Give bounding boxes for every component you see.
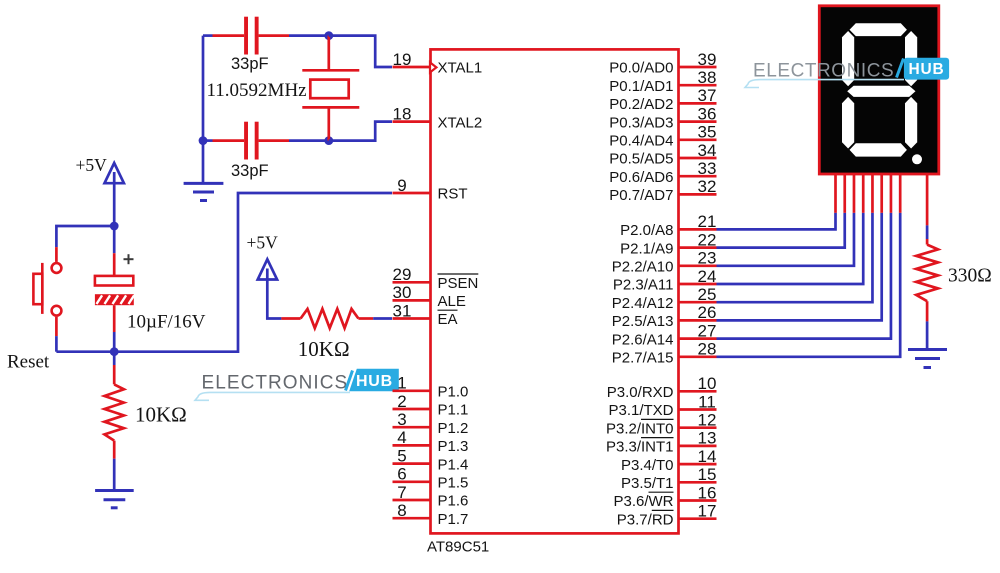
svg-text:AT89C51: AT89C51 [427, 538, 489, 555]
pin 8 P1.7 (left stub + number + label) [393, 501, 469, 528]
svg-text:P0.7/AD7: P0.7/AD7 [609, 187, 673, 204]
ground GND2 (reset circuit) [95, 491, 134, 508]
svg-text:10µF/16V: 10µF/16V [127, 312, 206, 333]
pin 34 P0.5/AD5 (right stub + number + label) [609, 141, 716, 168]
pin 25 P2.4/A12 (right stub + number + label) [612, 285, 717, 312]
pin 38 P0.1/AD1 (right stub + number + label) [609, 68, 716, 95]
node junction bottom (cap C2 / crystal / pin18) [324, 136, 333, 145]
watermark logo ELECTRONICS HUB (top right, over display) [745, 58, 949, 88]
pin 39 P0.0/AD0 (right stub + number + label) [609, 50, 716, 77]
pin 17 P3.7/RD (right stub + number + label) [617, 502, 717, 529]
svg-text:EA: EA [438, 311, 458, 328]
wire: +5V down to reset node [113, 183, 116, 226]
display segment g (middle) [847, 86, 915, 97]
pin 13 P3.3/INT1 (right stub + number + label) [606, 429, 717, 456]
svg-text:P3.3/INT1: P3.3/INT1 [606, 439, 674, 456]
power +5V supply (reset) [76, 155, 124, 183]
svg-text:31: 31 [393, 301, 412, 320]
svg-text:24: 24 [698, 267, 717, 286]
pin 37 P0.2/AD2 (right stub + number + label) [609, 86, 716, 113]
svg-text:P0.3/AD3: P0.3/AD3 [609, 114, 673, 131]
wire: node to push button top [56, 226, 114, 262]
svg-text:9: 9 [397, 176, 406, 195]
pin 4 P1.3 (left stub + number + label) [393, 428, 469, 455]
pin 14 P3.4/T0 (right stub + number + label) [621, 447, 717, 474]
svg-text:13: 13 [698, 429, 717, 448]
svg-text:P2.0/A8: P2.0/A8 [620, 222, 673, 239]
power +5V supply (EA pin) [247, 232, 279, 279]
wire: P2.4 (pin 25) to display segment pin 5 [717, 174, 873, 302]
ground GND1 (crystal circuit) [184, 141, 224, 201]
svg-text:RST: RST [438, 186, 468, 203]
svg-text:P3.1/TXD: P3.1/TXD [608, 402, 673, 419]
svg-text:35: 35 [698, 123, 717, 142]
svg-text:P1.6: P1.6 [438, 493, 469, 510]
wire: P2.3 (pin 24) to display segment pin 4 [717, 174, 864, 284]
svg-text:1: 1 [397, 374, 406, 393]
node junction (cap / resistor / bus) [110, 347, 119, 356]
display segment d (bottom) [850, 143, 907, 156]
svg-text:P1.1: P1.1 [438, 402, 469, 419]
pin 33 P0.6/AD6 (right stub + number + label) [609, 159, 716, 186]
svg-text:P3.7/RD: P3.7/RD [617, 511, 674, 528]
svg-text:34: 34 [698, 141, 717, 160]
wire: display common pin down [926, 174, 929, 239]
wire: push button bottom to reset bus [55, 317, 58, 352]
pin 24 P2.3/A11 (right stub + number + label) [613, 267, 717, 294]
wire: junction to XTAL2 pin 18 [329, 122, 392, 141]
svg-text:P2.3/A11: P2.3/A11 [613, 277, 674, 294]
svg-text:P3.2/INT0: P3.2/INT0 [606, 420, 674, 437]
pin 12 P3.2/INT0 (right stub + number + label) [606, 411, 717, 438]
watermark logo ELECTRONICS HUB (middle left) [195, 369, 399, 401]
op-amp U1 AT89C51 IC body [427, 49, 679, 555]
svg-text:P3.6/WR: P3.6/WR [613, 493, 673, 510]
display segment c (bottom-right) [905, 97, 917, 149]
svg-text:37: 37 [698, 86, 717, 105]
svg-text:10KΩ: 10KΩ [135, 402, 187, 426]
display segment a (top) [850, 23, 907, 36]
svg-text:19: 19 [393, 50, 412, 69]
resistor R1 10K ohm (reset pulldown) [105, 352, 187, 489]
svg-text:5: 5 [397, 446, 406, 465]
svg-text:P1.4: P1.4 [438, 456, 469, 473]
display segment b (top-right) [905, 31, 917, 86]
svg-text:27: 27 [698, 321, 717, 340]
svg-text:P0.4/AD4: P0.4/AD4 [609, 133, 673, 150]
svg-text:15: 15 [698, 465, 717, 484]
pin 29 PSEN (left stub + number + label) [393, 265, 479, 292]
svg-text:25: 25 [698, 285, 717, 304]
pin 15 P3.5/T1 (right stub + number + label) [621, 465, 717, 492]
svg-text:P0.0/AD0: P0.0/AD0 [609, 60, 673, 77]
svg-text:21: 21 [698, 212, 717, 231]
svg-text:7: 7 [397, 483, 406, 502]
svg-text:XTAL2: XTAL2 [438, 114, 483, 131]
svg-text:ELECTRONICS: ELECTRONICS [202, 373, 349, 394]
svg-text:2: 2 [397, 392, 406, 411]
pin 16 P3.6/WR (right stub + number + label) [613, 483, 716, 510]
pin 9 RST (left stub + number + label) [393, 176, 468, 203]
svg-text:6: 6 [397, 465, 406, 484]
svg-text:P1.3: P1.3 [438, 438, 469, 455]
svg-text:+5V: +5V [76, 155, 108, 175]
pin 1 P1.0 (left stub + number + label) [393, 374, 469, 401]
7-segment display DS1 (body) [819, 6, 939, 174]
node junction bottom-left (cap C2 / ground bus) [199, 136, 208, 145]
wire: P2.7 (pin 28) to display segment pin 8 [717, 174, 901, 357]
svg-text:P1.5: P1.5 [438, 475, 469, 492]
resistor R2 10K ohm (EA pull-up, horizontal) [281, 309, 392, 361]
svg-text:P0.2/AD2: P0.2/AD2 [609, 96, 673, 113]
svg-text:23: 23 [698, 249, 717, 268]
svg-text:26: 26 [698, 303, 717, 322]
svg-text:P2.1/A9: P2.1/A9 [620, 240, 673, 257]
svg-text:P1.0: P1.0 [438, 384, 469, 401]
pin 11 P3.1/TXD (right stub + number + label) [608, 392, 716, 419]
svg-text:HUB: HUB [356, 373, 393, 390]
svg-text:11: 11 [698, 392, 716, 411]
svg-text:Reset: Reset [7, 352, 50, 373]
display segment f (top-left) [842, 31, 854, 86]
svg-text:ALE: ALE [438, 293, 466, 310]
svg-text:29: 29 [393, 265, 412, 284]
pin 22 P2.1/A9 (right stub + number + label) [620, 230, 716, 257]
pin 3 P1.2 (left stub + number + label) [393, 410, 469, 437]
svg-text:P0.5/AD5: P0.5/AD5 [609, 151, 673, 168]
svg-text:P2.5/A13: P2.5/A13 [612, 313, 674, 330]
svg-text:3: 3 [397, 410, 406, 429]
svg-text:16: 16 [698, 483, 717, 502]
svg-text:17: 17 [698, 502, 717, 521]
pin 18 XTAL2 (left stub + number + label) [393, 104, 483, 131]
svg-text:30: 30 [393, 283, 412, 302]
crystal X1 11.0592MHz [207, 36, 360, 141]
pin 26 P2.5/A13 (right stub + number + label) [612, 303, 717, 330]
svg-text:36: 36 [698, 104, 717, 123]
wire: P2.1 (pin 22) to display segment pin 2 [717, 174, 845, 248]
svg-text:P3.4/T0: P3.4/T0 [621, 457, 674, 474]
pin 30 ALE (left stub + number + label) [393, 283, 466, 310]
svg-text:33pF: 33pF [231, 162, 269, 180]
node junction (+5V / button / capacitor) [110, 222, 119, 231]
svg-text:28: 28 [698, 340, 717, 359]
svg-text:12: 12 [698, 411, 717, 430]
display decimal point [912, 154, 922, 164]
wire: +5V down to EA resistor [267, 280, 281, 319]
pin 7 P1.6 (left stub + number + label) [393, 483, 469, 510]
svg-text:HUB: HUB [909, 61, 945, 78]
resistor R3 330 ohm [916, 239, 992, 349]
wire: P2.0 (pin 21) to display segment pin 1 [717, 174, 836, 229]
pin 5 P1.4 (left stub + number + label) [393, 446, 469, 473]
pin 36 P0.3/AD3 (right stub + number + label) [609, 104, 716, 131]
wire: junction to XTAL1 pin 19 [329, 36, 392, 67]
pin 21 P2.0/A8 (right stub + number + label) [620, 212, 716, 239]
svg-text:PSEN: PSEN [438, 275, 479, 292]
svg-text:ELECTRONICS: ELECTRONICS [753, 60, 894, 81]
pin 31 EA (left stub + number + label) [393, 301, 458, 328]
svg-text:10KΩ: 10KΩ [298, 337, 350, 361]
pin 10 P3.0/RXD (right stub + number + label) [607, 374, 717, 401]
pin 27 P2.6/A14 (right stub + number + label) [612, 321, 717, 348]
wire: P2.2 (pin 23) to display segment pin 3 [717, 174, 854, 266]
svg-text:32: 32 [698, 177, 717, 196]
svg-text:330Ω: 330Ω [948, 266, 992, 287]
svg-text:39: 39 [698, 50, 717, 69]
pin 19 XTAL1 (left stub + number + label) [393, 50, 483, 77]
pin 23 P2.2/A10 (right stub + number + label) [612, 249, 717, 276]
pin 35 P0.4/AD4 (right stub + number + label) [609, 123, 716, 150]
svg-text:P2.2/A10: P2.2/A10 [612, 259, 674, 276]
pin 2 P1.1 (left stub + number + label) [393, 392, 469, 419]
svg-text:P1.7: P1.7 [438, 511, 469, 528]
svg-text:P0.1/AD1: P0.1/AD1 [609, 78, 673, 95]
svg-text:P2.6/A14: P2.6/A14 [612, 331, 674, 348]
push button SW1 (Reset) [7, 263, 61, 373]
svg-text:38: 38 [698, 68, 717, 87]
svg-text:P0.6/AD6: P0.6/AD6 [609, 169, 673, 186]
wire: left vertical bus of crystal circuit [202, 36, 205, 141]
wire: P2.6 (pin 27) to display segment pin 7 [717, 174, 891, 339]
svg-text:XTAL1: XTAL1 [438, 60, 483, 77]
pin 32 P0.7/AD7 (right stub + number + label) [609, 177, 716, 204]
capacitor C1 33pF (top) [203, 17, 329, 73]
svg-text:4: 4 [397, 428, 406, 447]
svg-text:P3.5/T1: P3.5/T1 [621, 475, 674, 492]
svg-text:10: 10 [698, 374, 717, 393]
pin 6 P1.5 (left stub + number + label) [393, 465, 469, 492]
node junction top (cap C1 / crystal / pin19) [324, 31, 333, 40]
ground GND3 (display resistor) [908, 350, 947, 368]
display segment e (bottom-left) [842, 97, 854, 149]
svg-text:33: 33 [698, 159, 717, 178]
capacitor C3 10uF/16V electrolytic [95, 226, 206, 352]
pin 28 P2.7/A15 (right stub + number + label) [612, 340, 717, 367]
svg-text:11.0592MHz: 11.0592MHz [207, 80, 307, 101]
svg-text:33pF: 33pF [231, 55, 269, 73]
svg-text:P3.0/RXD: P3.0/RXD [607, 384, 674, 401]
capacitor C2 33pF (bottom) [203, 122, 329, 180]
svg-text:P2.4/A12: P2.4/A12 [612, 295, 674, 312]
svg-text:22: 22 [698, 230, 717, 249]
svg-text:P1.2: P1.2 [438, 420, 469, 437]
svg-text:+5V: +5V [247, 232, 279, 252]
wire: reset bottom bus to RST pin 9 [56, 193, 392, 352]
svg-text:8: 8 [397, 501, 406, 520]
svg-text:P2.7/A15: P2.7/A15 [612, 350, 674, 367]
wire: P2.5 (pin 26) to display segment pin 6 [717, 174, 882, 320]
svg-text:14: 14 [698, 447, 717, 466]
svg-text:18: 18 [393, 104, 412, 123]
